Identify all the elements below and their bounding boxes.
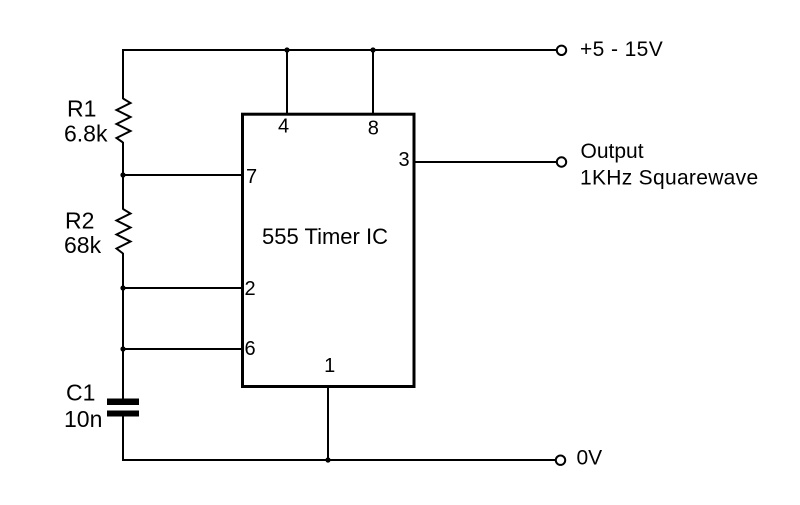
wire: pin 4 to +V rail: [286, 50, 288, 114]
wire: R1 bottom to R2 top: [122, 142, 124, 210]
svg-text:68k: 68k: [64, 232, 102, 258]
svg-text:1KHz Squarewave: 1KHz Squarewave: [580, 166, 758, 189]
wire: pin 3 output lead: [415, 161, 557, 163]
wire: R2 bottom down to C1: [122, 253, 124, 399]
svg-text:R1: R1: [67, 95, 96, 121]
svg-text:6.8k: 6.8k: [64, 121, 108, 147]
svg-text:0V: 0V: [577, 446, 603, 469]
svg-text:10n: 10n: [64, 406, 102, 432]
capacitor C1: [107, 399, 139, 417]
junction: node pin2 on left rail: [120, 285, 125, 290]
wire: C1 bottom to 0V rail: [122, 416, 124, 461]
svg-text:555 Timer IC: 555 Timer IC: [262, 224, 388, 249]
terminal: 0V: [556, 456, 565, 465]
svg-text:4: 4: [278, 116, 289, 138]
wire: left rail from +V rail down to R1: [122, 49, 124, 99]
resistor R2: [117, 209, 131, 254]
svg-text:3: 3: [398, 149, 409, 171]
terminal: +V supply: [557, 46, 566, 55]
junction: pin 8 node on +V rail: [370, 47, 375, 52]
wire: pin 2 connection: [123, 287, 243, 289]
resistor R1: [117, 99, 131, 143]
junction: node R1/R2/pin7: [120, 172, 125, 177]
wire: pin 6 connection: [123, 348, 243, 350]
svg-text:+5 - 15V: +5 - 15V: [580, 38, 663, 61]
svg-text:6: 6: [244, 338, 255, 360]
svg-text:C1: C1: [66, 379, 95, 405]
svg-text:R2: R2: [65, 207, 94, 233]
wire: bottom 0V rail: [122, 459, 556, 461]
svg-text:8: 8: [368, 117, 379, 139]
wire: pin 1 to 0V rail: [327, 387, 329, 460]
terminal: output: [557, 157, 566, 166]
svg-text:7: 7: [246, 166, 257, 188]
junction: node pin6 on left rail: [120, 346, 125, 351]
wire: pin 8 to +V rail: [372, 50, 374, 114]
op-amp U1: 555 Timer IC body: [243, 114, 415, 386]
wire: top +V power rail: [122, 49, 557, 51]
junction: pin 1 node on 0V rail: [325, 457, 330, 462]
junction: pin 4 node on +V rail: [284, 47, 289, 52]
svg-text:1: 1: [324, 355, 335, 377]
svg-text:Output: Output: [581, 140, 644, 163]
wire: pin 7 connection: [123, 174, 243, 176]
svg-text:2: 2: [244, 278, 255, 300]
